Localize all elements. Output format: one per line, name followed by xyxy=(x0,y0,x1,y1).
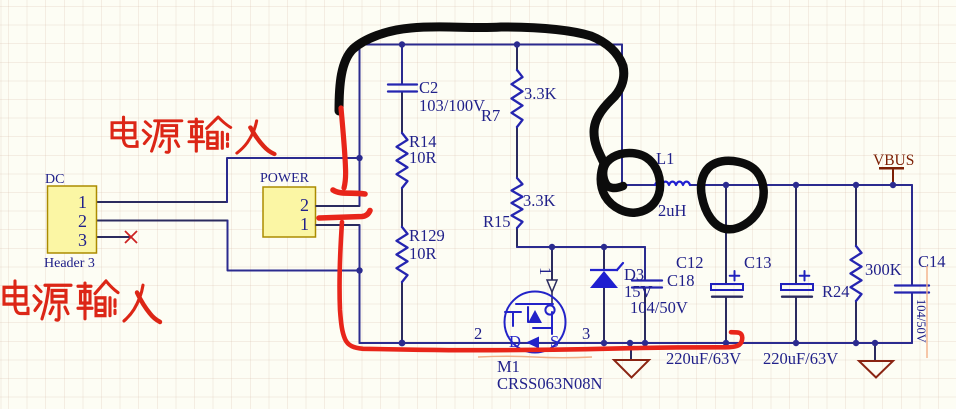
svg-text:1: 1 xyxy=(300,214,309,234)
svg-text:C13: C13 xyxy=(744,253,772,272)
wire D3 bottom lead xyxy=(603,288,605,343)
wire C13 leads xyxy=(725,185,727,284)
svg-text:POWER: POWER xyxy=(260,171,310,186)
svg-text:R15: R15 xyxy=(483,212,511,231)
capacitor (second 220uF/63V) polarized xyxy=(781,271,813,297)
svg-text:C18: C18 xyxy=(667,271,695,290)
svg-text:3: 3 xyxy=(582,324,590,343)
zener diode D3 15V xyxy=(590,263,623,288)
svg-text:104/50V: 104/50V xyxy=(914,299,928,343)
svg-text:104/50V: 104/50V xyxy=(630,298,688,317)
capacitor C2 plates xyxy=(388,83,417,85)
wire C18 leads xyxy=(644,247,646,280)
svg-text:103/100V: 103/100V xyxy=(419,96,485,115)
svg-text:2: 2 xyxy=(78,211,87,231)
svg-text:CRSS063N08N: CRSS063N08N xyxy=(497,374,603,393)
resistor R129 10R xyxy=(397,227,408,282)
resistor R24 300K xyxy=(851,246,862,301)
capacitor C13 220uF/63V polarized xyxy=(711,271,743,297)
svg-text:220uF/63V: 220uF/63V xyxy=(763,349,838,368)
wire node row y247 xyxy=(517,246,645,248)
capacitor C18 plates xyxy=(632,279,662,281)
faint orange vertical by C14 xyxy=(926,266,928,358)
hand-drawn red squiggle at POWER pin2 xyxy=(333,190,365,194)
hand-drawn red stroke at POWER pin1 xyxy=(319,211,370,219)
pin leads POWER xyxy=(316,206,360,225)
svg-text:2uH: 2uH xyxy=(658,201,687,220)
svg-text:R7: R7 xyxy=(481,106,500,125)
power port VBUS bar xyxy=(879,167,904,170)
svg-text:3.3K: 3.3K xyxy=(524,84,557,103)
capacitor C14 plates xyxy=(895,284,929,286)
hand-drawn black loop around L1 node xyxy=(601,153,660,213)
wire ground2 lead xyxy=(874,343,876,360)
wire DC pin1 horizontal xyxy=(96,201,227,203)
junction dots xyxy=(399,41,405,47)
resistor R14 10R xyxy=(397,133,408,188)
wire DC pin2 down and right xyxy=(228,221,360,271)
wire C2 branch xyxy=(401,45,403,85)
ground (near D3) xyxy=(614,360,649,378)
svg-text:1: 1 xyxy=(78,192,87,212)
no-connect X on DC pin3 xyxy=(125,231,137,243)
wire left drop to POWER pin2 xyxy=(359,45,361,207)
svg-text:Header 3: Header 3 xyxy=(44,256,95,271)
wire DC pin3 stub xyxy=(96,236,129,238)
wire ground1 lead xyxy=(630,343,632,359)
svg-text:VBUS: VBUS xyxy=(873,152,914,169)
connector DC Header 3 body xyxy=(48,186,97,253)
hand-drawn red marker down-left and along bottom xyxy=(340,222,743,350)
svg-text:2: 2 xyxy=(300,195,309,215)
wire R24 leads xyxy=(855,185,857,246)
svg-text:10R: 10R xyxy=(409,148,437,167)
wire POWER pin1 drop xyxy=(359,225,361,343)
hand-drawn black loop around C13 node xyxy=(701,161,764,229)
connector POWER body xyxy=(263,187,316,237)
wire DC pin2 horizontal xyxy=(96,220,228,222)
wire top rail xyxy=(360,44,623,46)
wire SW drop to L1 xyxy=(622,45,657,186)
svg-text:DC: DC xyxy=(45,172,64,187)
svg-text:300K: 300K xyxy=(865,260,902,279)
transistor M1 CRSS063N08N MOSFET xyxy=(505,292,566,353)
svg-text:220uF/63V: 220uF/63V xyxy=(666,349,741,368)
faint orange underline under M1 xyxy=(478,356,592,358)
hand-written red text 电源输入 (bottom) xyxy=(4,281,160,322)
svg-text:C14: C14 xyxy=(918,252,946,271)
svg-text:10R: 10R xyxy=(409,244,437,263)
svg-text:3.3K: 3.3K xyxy=(523,191,556,210)
wire right riser / C14 leads xyxy=(911,293,913,344)
wire VBUS lead xyxy=(892,170,894,185)
svg-text:C2: C2 xyxy=(419,78,438,97)
wire gate drop xyxy=(551,247,553,281)
svg-text:R24: R24 xyxy=(822,282,850,301)
ground (near VBUS column) xyxy=(859,361,893,378)
svg-text:C12: C12 xyxy=(676,253,704,272)
hand-written red text 电源输入 (top) xyxy=(112,117,274,154)
wire bottom rail xyxy=(360,342,913,344)
wire R7 branch xyxy=(516,45,518,71)
svg-text:1: 1 xyxy=(536,267,555,275)
wire DC pin1 riser xyxy=(227,158,360,202)
resistor R7 3.3K xyxy=(512,70,523,127)
svg-text:2: 2 xyxy=(474,324,482,343)
hand-drawn red marker vertical (power input mark) xyxy=(341,108,346,188)
wire top right horizontal xyxy=(690,184,912,186)
inductor L1 coil xyxy=(655,182,690,185)
wire C17 leads xyxy=(795,185,797,284)
resistor R15 3.3K xyxy=(512,178,523,228)
wire D3 top lead xyxy=(603,247,605,270)
op-amp-style gate arrow (pin 1 open arrowhead) xyxy=(547,280,557,292)
svg-text:3: 3 xyxy=(78,230,87,250)
svg-text:R129: R129 xyxy=(409,226,445,245)
hand-drawn black marker arc over top rail xyxy=(339,27,624,163)
